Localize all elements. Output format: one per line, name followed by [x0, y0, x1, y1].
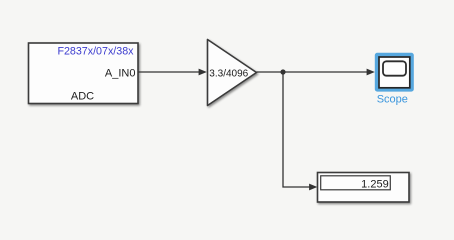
pin label A_IN0 [105, 68, 136, 80]
scope block Scope (selected, blue highlight) [375, 53, 414, 92]
svg-text:Scope: Scope [377, 94, 408, 106]
value label 3.3/4096 [209, 68, 248, 79]
wire gain output to Scope [257, 69, 375, 76]
svg-text:F2837x/07x/38x: F2837x/07x/38x [57, 46, 134, 58]
junction node (branch point) [280, 69, 285, 74]
label ADC [71, 91, 94, 103]
wire junction down and right to Display [283, 72, 317, 190]
svg-text:ADC: ADC [71, 91, 94, 103]
gain block 3.3/4096 [208, 40, 257, 106]
label F2837x/07x/38x [57, 46, 134, 58]
svg-text:1.259: 1.259 [361, 179, 389, 191]
svg-text:A_IN0: A_IN0 [105, 68, 136, 80]
label Scope [377, 94, 408, 106]
svg-text:3.3/4096: 3.3/4096 [209, 68, 248, 79]
ADC block U1 (C2000 F2837x ADC) [29, 43, 139, 104]
wire ADC output to gain input [139, 69, 207, 76]
display block (numeric display) [318, 173, 410, 203]
value label 1.259 [361, 179, 389, 191]
